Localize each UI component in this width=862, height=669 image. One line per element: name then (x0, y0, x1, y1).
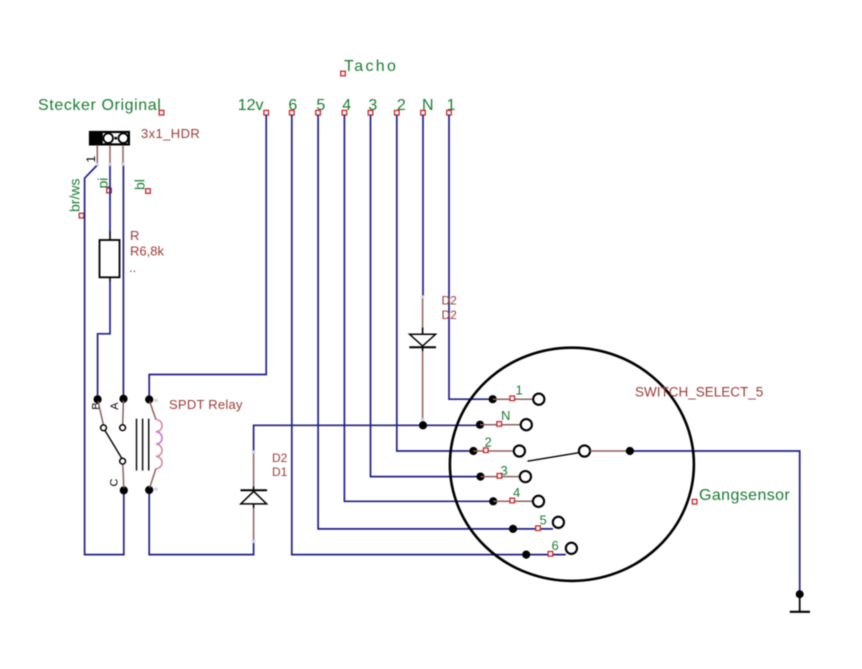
svg-text:SWITCH_SELECT_5: SWITCH_SELECT_5 (635, 384, 763, 399)
diode D1 (flyback) (241, 450, 268, 543)
svg-text:1: 1 (84, 156, 98, 163)
switch pos4: junction (489, 497, 497, 505)
wire resistor R to relay contact B (98, 282, 110, 399)
svg-text:12v: 12v (238, 97, 264, 114)
switch pos3: pin circle (520, 471, 531, 482)
net label 3 (368, 97, 377, 115)
wire 5 to switch pos5 (318, 115, 553, 529)
switch pos5: net square (536, 526, 541, 531)
relay contact circle C (120, 458, 126, 464)
switch pos5: junction (509, 525, 517, 533)
svg-text:3: 3 (501, 463, 508, 478)
switch pos4: pin wire (493, 500, 533, 502)
relay coil bottom junction (145, 486, 153, 494)
switch pos2: net square (484, 448, 489, 453)
connector pin wire 2 (109, 145, 111, 163)
wire 4 to switch pos4 (344, 115, 493, 501)
relay coil pin squares (154, 399, 157, 491)
net label N (421, 97, 434, 115)
svg-text:pi: pi (95, 178, 111, 189)
switch pos1: pin wire (493, 398, 534, 400)
switch pos1: pin circle (533, 394, 544, 405)
switch common pin circle (579, 445, 590, 456)
wire 1 to switch pos1 (449, 115, 493, 399)
svg-text:2: 2 (485, 435, 492, 450)
svg-text:C: C (109, 479, 121, 487)
relay switch blade (105, 430, 122, 458)
switch pos6: junction (522, 551, 530, 559)
net label 6 (288, 97, 297, 115)
svg-text:3x1_HDR: 3x1_HDR (141, 126, 200, 141)
svg-text:SPDT Relay: SPDT Relay (169, 397, 243, 412)
wire pi to resistor R (109, 165, 111, 232)
ground symbol (790, 590, 810, 612)
svg-text:Gangsensor: Gangsensor (699, 487, 790, 504)
net label 4 (342, 97, 351, 115)
relay contact stub B (98, 401, 103, 425)
wire bl to relay contact A (122, 165, 124, 398)
connector pin squares (96, 163, 125, 166)
switch pos4: pin circle (533, 496, 544, 507)
relay coil top junction (145, 395, 153, 403)
relay core lines (137, 419, 149, 471)
switch pos5: pin circle (553, 517, 564, 528)
net label 5 (316, 97, 326, 115)
connector pin wire 1 (96, 145, 98, 163)
wire 3 to switch pos3 (371, 115, 481, 477)
wire N upper (to diode D2) (422, 115, 424, 296)
node C junction (120, 486, 128, 494)
svg-text:N: N (501, 408, 510, 423)
svg-text:A: A (109, 402, 121, 410)
switch pos2: pin wire (473, 450, 513, 452)
svg-text:R: R (130, 228, 139, 243)
relay contact stub A (122, 401, 125, 425)
diode D2 (top, in N line) (409, 295, 436, 421)
switch pos1: net square (510, 396, 515, 401)
node A junction (119, 395, 127, 403)
svg-text:5: 5 (540, 513, 547, 528)
net label br/ws (67, 179, 84, 218)
relay contact circle B (101, 425, 107, 431)
relay K1 SPDT Relay (90, 395, 162, 495)
net label 2 (395, 97, 406, 115)
switch pos1: junction (489, 395, 497, 403)
relay contact circle A (120, 425, 126, 431)
wire N lower (D2 to junction) (422, 420, 424, 426)
svg-text:6: 6 (552, 538, 559, 553)
relay coil hook top (150, 401, 156, 419)
switch pos3: junction (476, 473, 484, 481)
net label 12v (238, 97, 269, 115)
switch wiper arm (528, 453, 579, 462)
net label Tacho (341, 58, 399, 76)
net label Gangsensor (692, 487, 790, 504)
wire N horizontal to switch posN (254, 425, 480, 451)
resistor R (100, 232, 120, 282)
wire 6 to switch pos6 (292, 115, 566, 555)
svg-text:D2: D2 (442, 294, 458, 308)
relay contact stub C (123, 464, 124, 488)
rotary switch body SWITCH_SELECT_5 (450, 348, 694, 581)
net label pi (95, 178, 112, 193)
wire 2 to switch pos2 (397, 115, 474, 451)
svg-text:1: 1 (516, 383, 523, 398)
svg-text:br/ws: br/ws (67, 179, 83, 212)
switch posN: net square (497, 422, 502, 427)
svg-text:Tacho: Tacho (344, 58, 398, 75)
svg-text:R6,8k: R6,8k (130, 244, 164, 259)
switch pos2: junction (469, 447, 477, 455)
switch pos2: pin circle (514, 445, 525, 456)
switch pos4: net square (510, 498, 515, 503)
net label Stecker Original (38, 97, 164, 115)
wire 12v to relay coil top (149, 115, 266, 398)
svg-text:D2: D2 (272, 451, 288, 465)
net label 1 (447, 97, 456, 115)
relay coil hook bottom (150, 469, 156, 488)
switch posN: junction (476, 421, 484, 429)
switch pos3: net square (497, 474, 502, 479)
wire switch wiper output to ground (630, 451, 800, 591)
connector pin wire 3 (122, 145, 124, 163)
switch posN: pin circle (521, 419, 532, 430)
svg-text:..: .. (129, 260, 136, 275)
node B junction (94, 395, 102, 403)
connector J1 3x1_HDR (90, 132, 129, 144)
svg-text:D2: D2 (442, 308, 458, 322)
svg-text:4: 4 (513, 485, 520, 500)
relay coil winding (156, 420, 162, 432)
svg-text:D1: D1 (272, 465, 288, 479)
switch pos3: pin wire (481, 476, 520, 478)
switch common pin wire (590, 450, 630, 452)
wire br/ws to relay contact C (85, 165, 124, 555)
switch posN: pin wire (480, 424, 521, 426)
switch pos6: pin circle (566, 543, 577, 554)
junction N line / D2 (419, 421, 427, 429)
svg-text:Stecker Original: Stecker Original (38, 97, 161, 114)
wire relay coil bottom to diode D1 anode (149, 491, 253, 555)
switch pos6: net square (548, 552, 553, 557)
net label bl (132, 179, 151, 193)
junction wiper output (626, 447, 634, 455)
